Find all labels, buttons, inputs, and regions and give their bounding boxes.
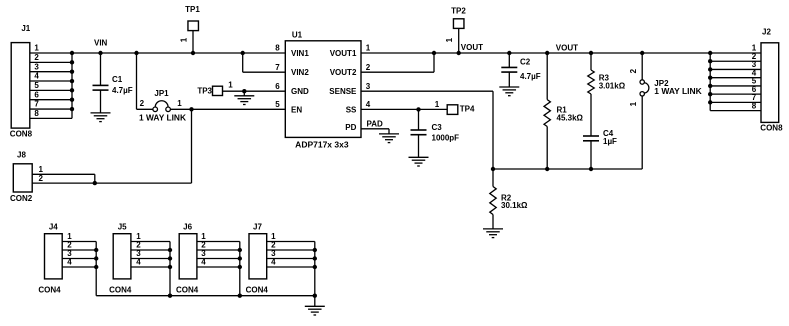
svg-text:J8: J8 [17,151,26,160]
svg-text:7: 7 [34,100,39,109]
svg-text:5: 5 [275,100,280,109]
svg-text:J6: J6 [183,222,192,231]
svg-text:CON8: CON8 [760,123,783,132]
svg-text:PD: PD [345,123,356,132]
svg-text:J1: J1 [21,24,30,33]
svg-text:CON4: CON4 [176,286,199,295]
svg-text:GND: GND [291,87,309,96]
svg-text:TP3: TP3 [197,87,212,96]
svg-text:J5: J5 [118,222,127,231]
svg-text:1: 1 [177,99,182,108]
svg-text:1: 1 [629,101,638,106]
svg-text:TP1: TP1 [185,5,200,14]
svg-text:8: 8 [275,44,280,53]
svg-text:1: 1 [445,37,454,42]
svg-text:4: 4 [34,72,39,81]
svg-text:4.7µF: 4.7µF [112,86,133,95]
svg-text:1000pF: 1000pF [432,133,460,142]
svg-text:4.7µF: 4.7µF [520,72,541,81]
svg-text:1: 1 [38,165,43,174]
svg-text:1: 1 [435,100,440,109]
svg-text:1µF: 1µF [603,137,617,146]
svg-text:EN: EN [291,105,302,114]
svg-text:1: 1 [34,44,39,53]
svg-text:2: 2 [34,53,39,62]
svg-text:1: 1 [228,81,233,90]
svg-text:ADP717x 3x3: ADP717x 3x3 [295,141,349,150]
svg-text:CON8: CON8 [10,130,33,139]
svg-text:C1: C1 [112,75,123,84]
svg-text:2: 2 [38,174,43,183]
svg-text:4: 4 [271,258,276,267]
svg-text:J4: J4 [49,222,58,231]
svg-text:VOUT1: VOUT1 [330,49,357,58]
svg-text:45.3kΩ: 45.3kΩ [557,113,584,122]
svg-text:3: 3 [34,62,39,71]
svg-text:C3: C3 [432,123,443,132]
svg-text:CON2: CON2 [10,194,33,203]
svg-text:VOUT: VOUT [556,43,578,52]
svg-text:C2: C2 [520,58,531,67]
svg-text:7: 7 [275,63,280,72]
svg-text:2: 2 [140,99,145,108]
svg-text:VOUT: VOUT [461,43,483,52]
svg-text:SENSE: SENSE [329,87,357,96]
svg-text:2: 2 [366,63,371,72]
svg-text:30.1kΩ: 30.1kΩ [501,201,528,210]
svg-text:6: 6 [34,90,39,99]
svg-text:VIN2: VIN2 [291,68,309,77]
svg-text:TP2: TP2 [451,7,466,16]
svg-text:CON4: CON4 [246,286,269,295]
svg-text:CON4: CON4 [109,286,132,295]
svg-text:1 WAY LINK: 1 WAY LINK [139,113,186,122]
svg-text:4: 4 [366,100,371,109]
svg-text:3: 3 [366,82,371,91]
svg-text:VIN: VIN [94,39,108,48]
svg-text:U1: U1 [292,31,303,40]
svg-text:J2: J2 [762,28,771,37]
svg-text:JP1: JP1 [154,89,169,98]
svg-text:1: 1 [366,44,371,53]
svg-text:CON4: CON4 [38,286,61,295]
svg-text:4: 4 [136,258,141,267]
svg-text:4: 4 [201,258,206,267]
svg-text:4: 4 [67,258,72,267]
svg-text:2: 2 [629,68,638,73]
svg-text:8: 8 [34,109,39,118]
svg-text:VIN1: VIN1 [291,49,309,58]
svg-text:VOUT2: VOUT2 [330,68,357,77]
svg-text:SS: SS [346,105,357,114]
svg-text:3.01kΩ: 3.01kΩ [599,81,626,90]
svg-text:5: 5 [34,81,39,90]
svg-text:TP4: TP4 [460,104,475,113]
svg-text:PAD: PAD [367,120,384,129]
svg-text:8: 8 [752,101,757,110]
svg-text:6: 6 [275,82,280,91]
svg-text:1: 1 [180,37,189,42]
svg-text:J7: J7 [253,222,262,231]
svg-text:1 WAY LINK: 1 WAY LINK [654,87,702,96]
